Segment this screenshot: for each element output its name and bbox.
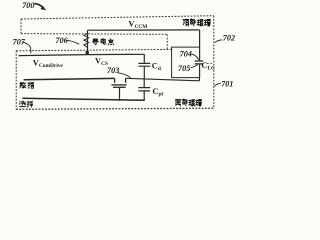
svg-text:701: 701 [221,79,233,88]
svg-text:CLC: CLC [201,61,215,72]
svg-text:705: 705 [178,64,190,73]
hanzi label: select 选择 [19,101,32,107]
bottom glass dashed outline (bottom edge) [16,108,214,109]
resistor R706 conductive dot zigzag [84,33,89,47]
capacitor C_LC plates [195,61,204,64]
leader for 704 [192,54,199,60]
svg-text:704: 704 [180,49,192,58]
svg-text:700: 700 [22,1,34,10]
transistor Q703 TFT drain stub [125,78,127,83]
wire: stem from Vcs rail to C_d [143,54,145,63]
wire: C_LC bottom plate down LC box right edge [199,64,201,77]
leader for 702 [215,40,222,43]
leader for 707 [22,42,31,54]
wire: data line [24,78,115,79]
top glass dashed outline (top border) [21,16,214,19]
wire: VcomDrive / Vcs rail [19,54,145,55]
node junction dot on Vcs rail [85,51,89,55]
svg-text:VCCM: VCCM [128,19,147,30]
hanzi label: data 数据 [20,82,34,88]
svg-text:VComDrive: VComDrive [33,58,64,69]
capacitor C_d plates [138,63,150,66]
wire: pixel node horizontal [126,78,200,81]
wire: select line [22,98,144,100]
transistor Q703 TFT gate bar [113,86,126,88]
top glass dashed outline (step vertical) [166,35,168,50]
hanzi label: conductive point 导电点 [92,39,113,45]
wire: stem C_pl to select line [143,91,145,100]
leader arrow for 700 [35,4,45,9]
leader for 705 [191,65,198,68]
bottom glass dashed outline (left edge) [15,51,17,110]
wire: stem from C_d to pixel node [143,67,145,80]
transistor Q703 TFT channel bar [111,84,126,86]
hanzi label: top glass 顶部玻璃 [183,19,211,26]
svg-text:Cd: Cd [152,62,161,73]
svg-text:702: 702 [223,34,235,43]
bottom glass dashed outline (top edge) [16,49,171,50]
leader for 706 [66,40,80,44]
LC cell box 704/705 [172,47,200,78]
dashed stub right of C_LC [207,63,213,65]
svg-text:VCS: VCS [95,56,108,67]
capacitor C_pl plates [138,88,150,91]
wire: pixel node to LC cell bottom corner [198,78,200,81]
wire: conductive-dot vertical drop [87,30,89,54]
wire: V_CCM rail on top glass [88,29,200,31]
leader for 703 [118,73,131,78]
leader for 701 [214,83,221,86]
top glass dashed outline (left edge) [20,19,22,34]
wire: stem pixel node to C_pl [143,79,145,87]
transistor Q703 TFT gate lead [119,87,121,101]
svg-text:703: 703 [107,66,119,75]
wire: V_CCM drop to C_LC top plate [199,30,201,61]
right dashed border shared by glasses [213,16,215,109]
svg-text:Cpl: Cpl [152,87,163,98]
transistor Q703 TFT source stub [114,78,116,82]
hanzi label: bottom glass 底部玻璃 [176,99,202,106]
top glass dashed outline (bottom edge left part) [21,33,167,36]
